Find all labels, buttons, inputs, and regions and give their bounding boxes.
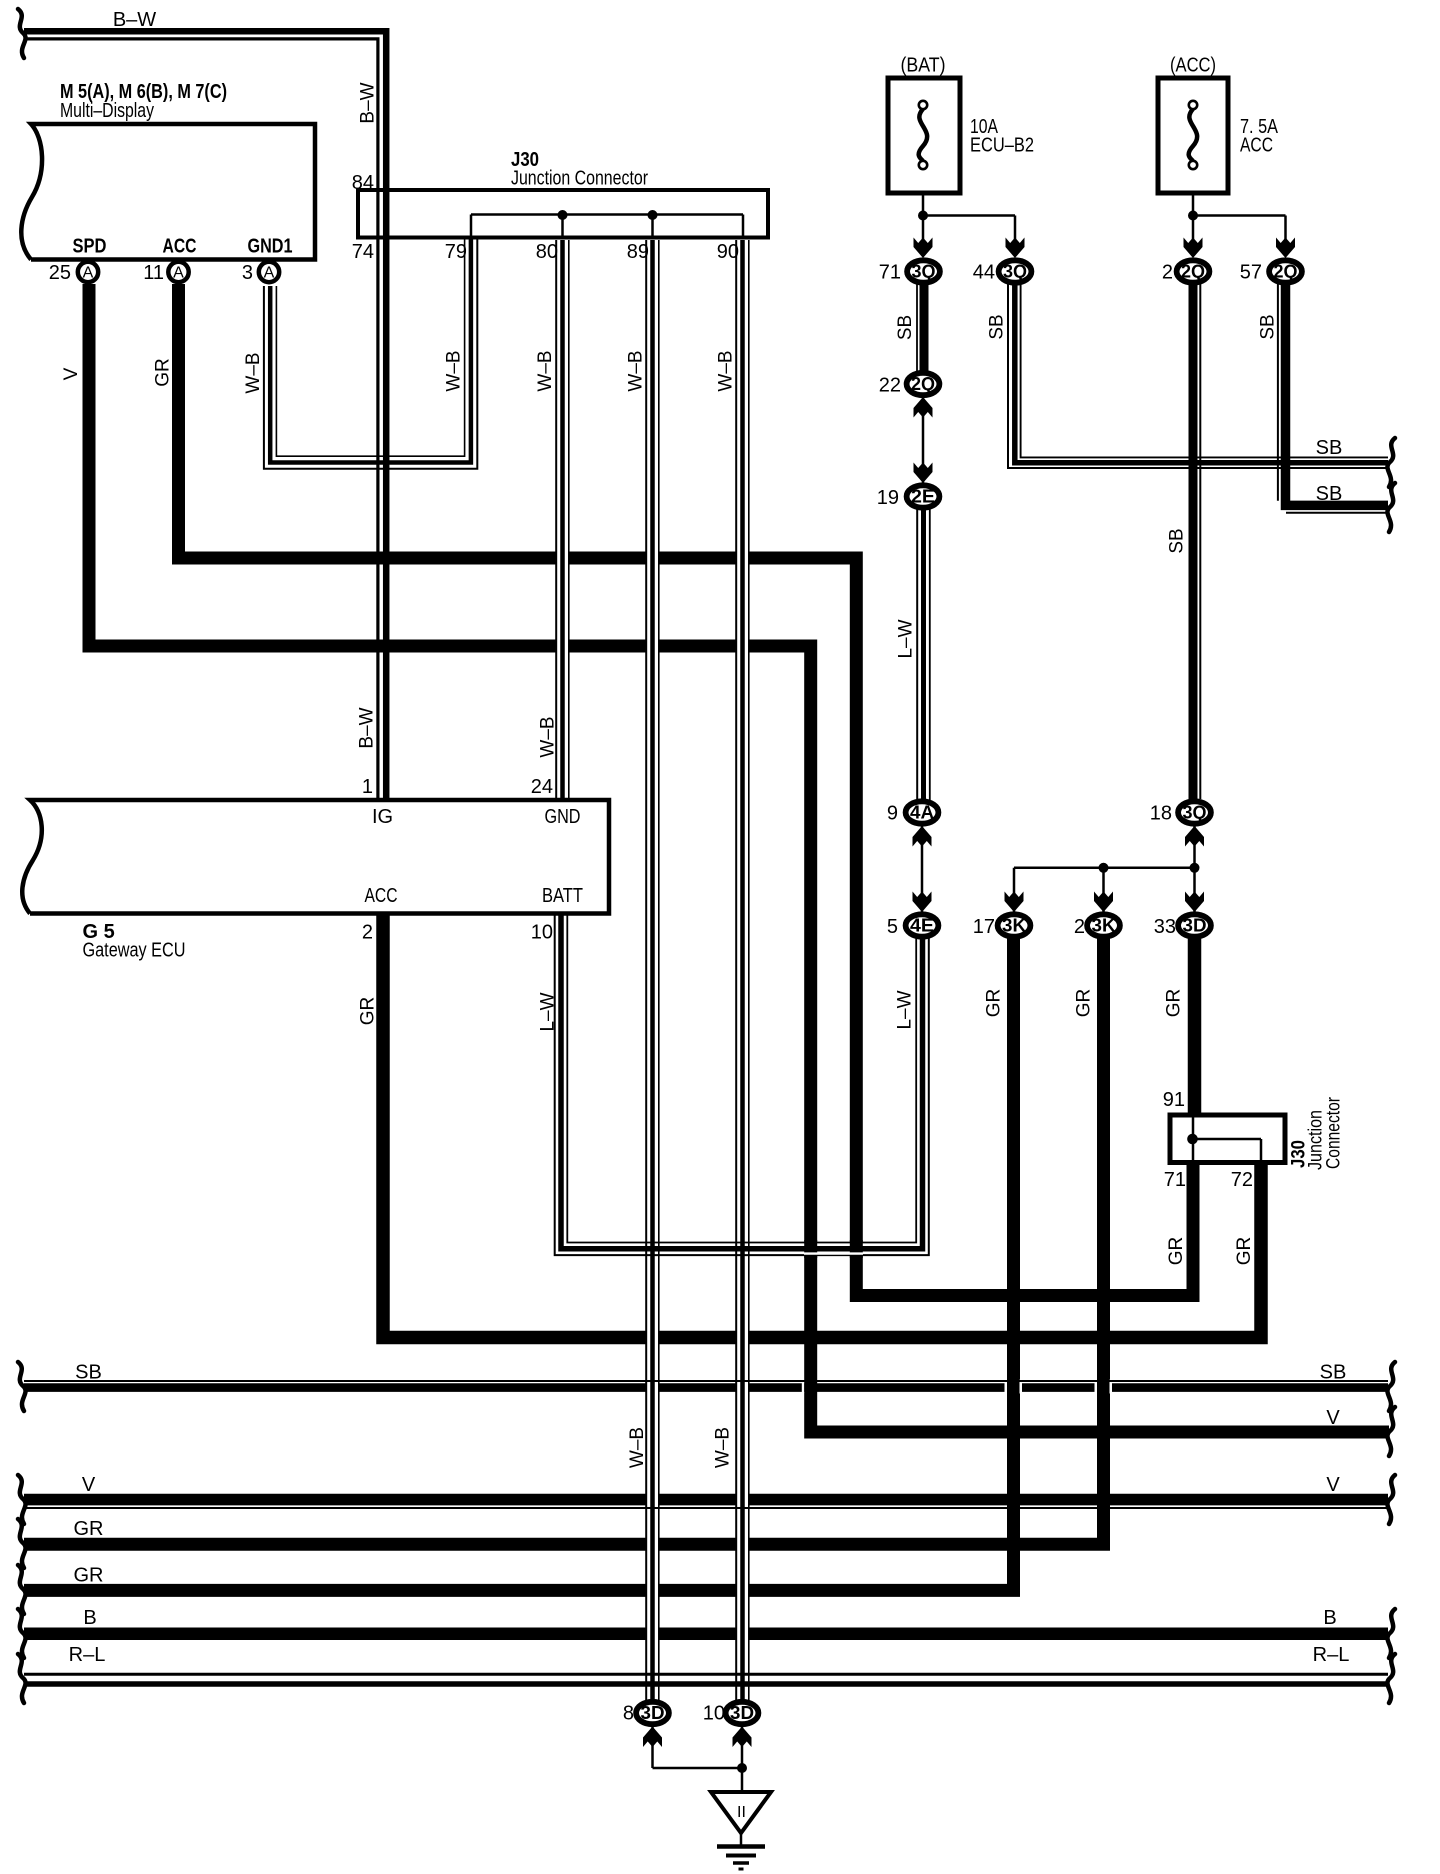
thin stems and junction lines [471, 193, 1286, 1794]
connector oval 9 4A [906, 801, 939, 823]
svg-text:10: 10 [531, 922, 553, 944]
arrow into 2-3K [1094, 892, 1113, 913]
svg-text:3D: 3D [1183, 916, 1207, 936]
svg-text:57: 57 [1240, 262, 1262, 284]
svg-text:B–W: B–W [358, 82, 379, 123]
wire ground runs below 8-3D and 10-3D [653, 1722, 743, 1794]
SB bus line thick [24, 1383, 1388, 1392]
junction dot 33-3D branch [1190, 863, 1200, 873]
svg-text:ACC: ACC [163, 236, 197, 258]
arrow into 57-2Q [1276, 238, 1295, 259]
svg-text:22: 22 [879, 375, 901, 397]
svg-text:91: 91 [1163, 1089, 1185, 1111]
arrow into 71-3Q [914, 238, 933, 259]
svg-text:SB: SB [75, 1362, 102, 1384]
svg-text:Junction Connector: Junction Connector [511, 168, 648, 190]
wire fuse BAT stem and branch [923, 193, 1015, 250]
svg-text:W–B: W–B [444, 350, 465, 391]
ground symbol [711, 1792, 771, 1869]
fuse ACC symbol [1189, 109, 1197, 161]
svg-text:11: 11 [143, 262, 164, 284]
wire L-W from Gateway BATT down, right, up to 5-4E [555, 915, 929, 1255]
arrow into 19-2E [914, 463, 933, 484]
svg-text:V: V [1326, 1407, 1340, 1429]
svg-text:B–W: B–W [113, 9, 156, 31]
svg-text:SB: SB [986, 314, 1007, 339]
svg-text:(BAT): (BAT) [901, 55, 946, 77]
svg-text:3K: 3K [1092, 916, 1116, 936]
wire V from SPD pin: down, right, down, right to V bus right [89, 284, 1389, 1432]
wire W-B from J30 pin 80 down to Gateway GND [555, 240, 557, 798]
svg-text:19: 19 [877, 487, 899, 509]
svg-text:24: 24 [531, 776, 553, 798]
rotated wire labels [61, 82, 1345, 1468]
fuse ACC box [1158, 78, 1228, 193]
svg-text:80: 80 [536, 241, 558, 263]
wire SB thin companion of 57-2Q wire [1277, 284, 1279, 501]
junction dot J30 pin 89 [648, 210, 658, 220]
svg-text:SB: SB [895, 315, 916, 340]
svg-text:89: 89 [627, 241, 649, 263]
svg-text:18: 18 [1150, 803, 1172, 825]
svg-text:2E: 2E [911, 487, 935, 507]
wire SB thin companion of 71-3Q wire [916, 284, 918, 372]
pin circle A GND1 [259, 262, 279, 282]
connector oval 2 3K [1087, 914, 1120, 936]
svg-text:W–B: W–B [626, 350, 647, 391]
svg-text:72: 72 [1231, 1169, 1253, 1191]
connector oval 71 3Q [907, 260, 940, 282]
pin circle A ACC [168, 262, 188, 282]
B bus line [24, 1627, 1388, 1640]
wire W-B from GND1 pin down, right, up to J30 pin 79 [264, 239, 477, 469]
svg-text:A: A [83, 265, 94, 282]
connector oval 2 2Q [1177, 260, 1210, 282]
arrow into 33-3D [1185, 892, 1204, 913]
svg-text:GR: GR [984, 989, 1005, 1018]
junction dot fuse BAT branch [918, 211, 928, 221]
svg-text:W–B: W–B [538, 716, 559, 757]
svg-text:B: B [83, 1607, 96, 1629]
svg-text:2: 2 [362, 922, 373, 944]
svg-text:10: 10 [703, 1703, 725, 1725]
svg-text:GR: GR [1166, 1237, 1187, 1266]
junction connector J30 box [358, 190, 768, 238]
R-L bus line [24, 1673, 1388, 1676]
svg-text:2Q: 2Q [1181, 262, 1205, 282]
svg-text:84: 84 [352, 172, 374, 194]
svg-text:2Q: 2Q [1274, 262, 1298, 282]
wire between 22-2Q and 19-2E [922, 392, 925, 488]
svg-text:33: 33 [1154, 916, 1176, 938]
svg-text:(ACC): (ACC) [1170, 55, 1216, 77]
wire network from 18-3Q to 17-3K 2-3K 33-3D [1014, 818, 1195, 916]
svg-text:3D: 3D [641, 1703, 665, 1723]
svg-text:90: 90 [717, 241, 739, 263]
connector oval 17 3K [998, 914, 1031, 936]
junction dot ground [737, 1763, 747, 1773]
junction dot 2-3K branch [1099, 863, 1109, 873]
wire GR from ACC pin: down, right, down, right, up to J30 pin 71 [179, 284, 1194, 1296]
arrow into 2-2Q [1184, 238, 1203, 259]
svg-text:W–B: W–B [716, 350, 737, 391]
svg-text:79: 79 [445, 241, 467, 263]
wire SB from fuse to 71-3Q and 22-2Q [920, 284, 929, 376]
svg-text:74: 74 [352, 241, 374, 263]
svg-text:2Q: 2Q [911, 374, 935, 394]
svg-text:1: 1 [362, 776, 373, 798]
wire break symbols right edge [1387, 438, 1395, 487]
svg-text:W–B: W–B [627, 1427, 648, 1468]
svg-text:R–L: R–L [69, 1644, 106, 1666]
svg-text:L–W: L–W [895, 619, 916, 658]
svg-text:GR: GR [74, 1565, 104, 1587]
halo gaps where GR wires cross SB bus [802, 1380, 1112, 1394]
wire W-B from J30 pin 89 down to connector 8-3D [645, 240, 647, 1700]
arrow into 44-3Q [1006, 238, 1025, 259]
svg-text:SPD: SPD [73, 236, 107, 258]
wire GR from connector 2-3K down to GR bus [24, 934, 1104, 1544]
svg-text:B–W: B–W [357, 707, 378, 748]
svg-text:71: 71 [1164, 1169, 1186, 1191]
svg-text:8: 8 [623, 1703, 634, 1725]
junction dot J30 pin 80 [558, 210, 568, 220]
connector oval 18 3Q [1178, 801, 1211, 823]
svg-text:3: 3 [242, 262, 253, 284]
junction connector J30-2 box [1170, 1115, 1285, 1163]
arrow into 8-3D [643, 1727, 662, 1748]
connector oval 44 3Q [999, 260, 1032, 282]
connector oval 57 2Q [1269, 260, 1302, 282]
wire SB from 2-2Q down to 18-3Q [1189, 284, 1198, 806]
svg-text:W–B: W–B [713, 1427, 734, 1468]
SB bus thin top line [24, 1380, 1388, 1382]
wire W-B from J30 pin 90 down to connector 10-3D [735, 240, 737, 1700]
svg-text:A: A [173, 265, 184, 282]
svg-text:3Q: 3Q [912, 262, 936, 282]
svg-text:3D: 3D [730, 1703, 754, 1723]
wire SB from 44-3Q down then right to break symbol [1008, 284, 1388, 468]
junction dot fuse ACC branch [1188, 211, 1198, 221]
svg-text:II: II [737, 1804, 746, 1821]
svg-text:3K: 3K [1002, 916, 1026, 936]
svg-text:SB: SB [1166, 528, 1187, 553]
svg-text:4E: 4E [910, 916, 934, 936]
svg-text:3Q: 3Q [1003, 262, 1027, 282]
V bus thin bottom line [24, 1507, 1388, 1509]
wire break symbols left edge [18, 9, 26, 58]
arrow into 10-3D [733, 1727, 752, 1748]
wire B-W from break symbol along top, down through J30 pin 84/74 to Gateway IG [24, 31, 386, 798]
pin circle A SPD [78, 262, 98, 282]
wire between 9-4A and 5-4E [921, 818, 924, 916]
arrow into 5-4E [913, 892, 932, 913]
arrow below 22-2Q [914, 397, 933, 418]
wire fuse ACC stem and branch [1193, 193, 1286, 250]
wire GR from connector 33-3D down to J30 pin 91 [1188, 934, 1202, 1117]
svg-text:4A: 4A [910, 803, 934, 823]
svg-text:44: 44 [973, 262, 995, 284]
svg-text:A: A [264, 265, 275, 282]
connector oval 22 2Q [907, 373, 940, 395]
svg-text:17: 17 [973, 916, 995, 938]
svg-text:SB: SB [1316, 437, 1343, 459]
svg-text:25: 25 [49, 262, 71, 284]
svg-text:BATT: BATT [542, 885, 583, 907]
V bus line [24, 1494, 1388, 1506]
junction connector J30 inner bar [471, 215, 743, 238]
arrow into 17-3K [1005, 892, 1024, 913]
arrow below 18-3Q [1185, 826, 1204, 847]
connector oval 33 3D [1178, 914, 1211, 936]
connector oval 8 3D [636, 1702, 669, 1724]
junction dot J30-2 [1187, 1134, 1198, 1145]
svg-text:71: 71 [879, 262, 901, 284]
svg-text:GR: GR [1234, 1237, 1255, 1266]
svg-text:GND1: GND1 [248, 236, 293, 258]
svg-text:V: V [61, 367, 82, 380]
svg-text:GND: GND [545, 806, 581, 828]
svg-text:GR: GR [358, 997, 379, 1026]
svg-text:V: V [1326, 1474, 1340, 1496]
svg-text:W–B: W–B [243, 352, 264, 393]
svg-text:W–B: W–B [535, 350, 556, 391]
svg-text:ACC: ACC [1240, 135, 1273, 157]
connector oval 19 2E [907, 485, 940, 507]
svg-text:L–W: L–W [538, 992, 559, 1031]
Gateway ECU box [22, 800, 609, 914]
svg-text:ACC: ACC [365, 885, 398, 907]
svg-text:9: 9 [887, 803, 898, 825]
wire SB thin companion of 2-2Q wire [1199, 284, 1201, 799]
arrow below 9-4A [913, 826, 932, 847]
wire patches where V and GR wires cross L-W run [804, 1240, 817, 1258]
Multi-Display box [21, 124, 315, 260]
junction connector J30-2 inner bar [1193, 1117, 1262, 1160]
svg-text:SB: SB [1258, 314, 1279, 339]
svg-text:Gateway ECU: Gateway ECU [83, 940, 186, 962]
wire GR from connector 17-3K down to GR bus [24, 934, 1014, 1590]
svg-text:GR: GR [153, 358, 174, 387]
svg-text:R–L: R–L [1313, 1644, 1350, 1666]
connector oval 10 3D [726, 1702, 759, 1724]
svg-text:2: 2 [1162, 262, 1173, 284]
wire GR from Gateway ECU ACC: down, right, up to J30 pin 72 [383, 915, 1261, 1338]
svg-text:GR: GR [1074, 989, 1095, 1018]
svg-text:SB: SB [1320, 1362, 1347, 1384]
svg-text:ECU–B2: ECU–B2 [970, 135, 1034, 157]
svg-text:IG: IG [372, 806, 393, 828]
svg-text:GR: GR [1164, 989, 1185, 1018]
svg-text:2: 2 [1074, 916, 1085, 938]
svg-text:SB: SB [1316, 483, 1343, 505]
wire SB from 57-2Q down then right to break symbol [1286, 284, 1389, 505]
svg-text:Multi–Display: Multi–Display [60, 100, 154, 122]
svg-text:3Q: 3Q [1183, 803, 1207, 823]
wire L-W between 19-2E and 9-4A [916, 505, 918, 806]
connector oval 5 4E [906, 914, 939, 936]
svg-text:GR: GR [74, 1518, 104, 1540]
fuse ECU-B2 symbol [919, 109, 927, 161]
svg-text:L–W: L–W [895, 990, 916, 1029]
svg-text:V: V [82, 1474, 96, 1496]
svg-text:B: B [1323, 1607, 1336, 1629]
svg-text:Connector: Connector [1324, 1096, 1345, 1169]
svg-text:5: 5 [887, 916, 898, 938]
fuse ECU-B2 box [888, 78, 960, 193]
